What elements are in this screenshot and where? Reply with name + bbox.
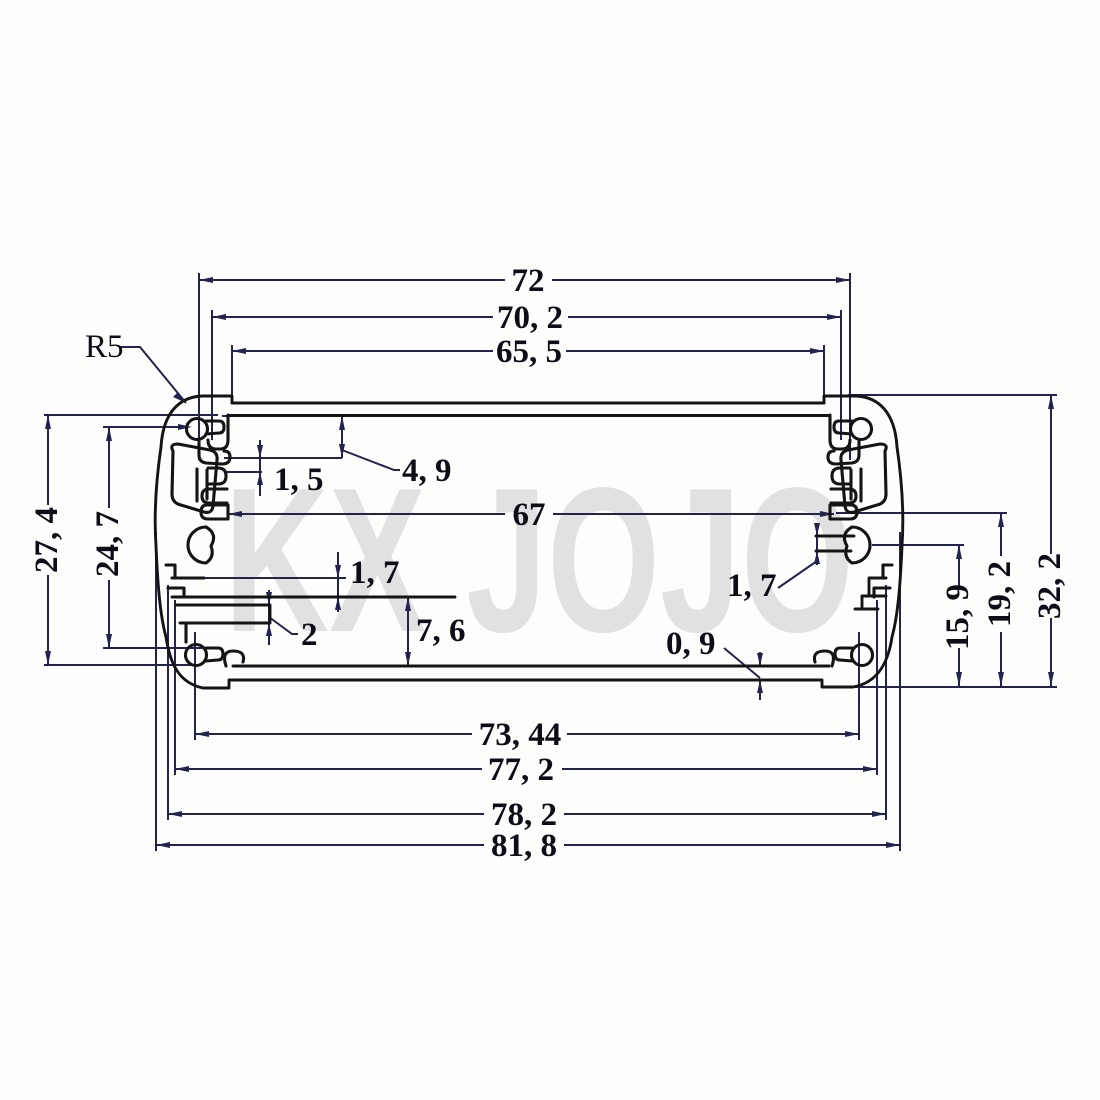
svg-text:72: 72 bbox=[512, 263, 545, 299]
svg-text:81, 8: 81, 8 bbox=[491, 828, 557, 864]
svg-text:0, 9: 0, 9 bbox=[666, 626, 716, 662]
svg-text:32, 2: 32, 2 bbox=[1032, 553, 1068, 619]
svg-text:77, 2: 77, 2 bbox=[488, 752, 554, 788]
svg-text:65, 5: 65, 5 bbox=[496, 334, 562, 370]
svg-text:4, 9: 4, 9 bbox=[402, 453, 452, 489]
svg-text:R5: R5 bbox=[85, 329, 124, 365]
svg-text:73, 44: 73, 44 bbox=[479, 717, 562, 753]
svg-text:1, 7: 1, 7 bbox=[727, 568, 777, 604]
svg-text:19, 2: 19, 2 bbox=[982, 561, 1018, 627]
svg-text:2: 2 bbox=[301, 617, 318, 653]
svg-text:24, 7: 24, 7 bbox=[90, 511, 126, 577]
svg-text:27, 4: 27, 4 bbox=[29, 507, 65, 573]
svg-text:7, 6: 7, 6 bbox=[416, 613, 466, 649]
svg-text:70, 2: 70, 2 bbox=[497, 300, 563, 336]
svg-text:1, 5: 1, 5 bbox=[274, 462, 324, 498]
svg-text:15, 9: 15, 9 bbox=[940, 584, 976, 650]
svg-text:1, 7: 1, 7 bbox=[350, 555, 400, 591]
svg-text:67: 67 bbox=[513, 497, 546, 533]
